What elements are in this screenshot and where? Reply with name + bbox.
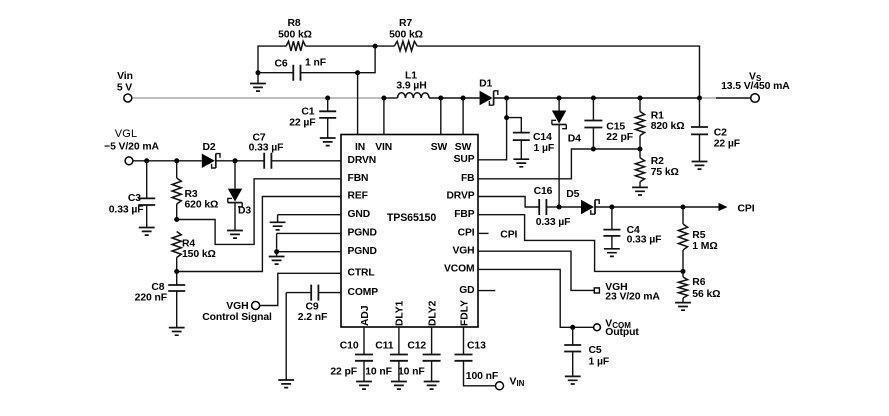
wire C9 to ground: [285, 293, 287, 380]
svg-text:R4: R4: [182, 238, 195, 249]
resistor R2 75k: [635, 149, 678, 187]
wire D2 to C7: [216, 158, 264, 163]
terminal VGH 23V/20mA: [594, 282, 660, 302]
capacitor C15 22pF: [584, 96, 633, 150]
svg-text:620 kΩ: 620 kΩ: [185, 199, 219, 210]
svg-text:R8: R8: [287, 18, 300, 29]
svg-text:GND: GND: [348, 209, 371, 220]
resistor R8 500k: [278, 18, 312, 51]
wire L1 to D1: [429, 97, 480, 99]
pin VIN riser: [381, 96, 386, 135]
capacitor C13 100nF: [455, 327, 499, 386]
ground D3: [227, 231, 243, 239]
ground C5: [565, 376, 581, 384]
wire 5V rail to L1: [384, 97, 398, 99]
svg-text:10 nF: 10 nF: [365, 367, 392, 378]
ground R6: [675, 303, 691, 311]
svg-text:VIN: VIN: [510, 376, 525, 388]
svg-text:C1: C1: [301, 107, 314, 118]
diode D4: [552, 96, 581, 208]
diode D2: [202, 142, 220, 168]
svg-text:CPI: CPI: [500, 229, 517, 240]
ground C8: [169, 328, 185, 336]
svg-text:PGND: PGND: [348, 246, 377, 257]
svg-text:22 pF: 22 pF: [606, 132, 633, 143]
svg-text:R6: R6: [692, 277, 705, 288]
wire FB pin to divider: [478, 147, 643, 179]
capacitor C16 0.33uF: [534, 186, 571, 228]
svg-text:1 nF: 1 nF: [305, 58, 326, 69]
diode D1: [479, 79, 498, 106]
terminal Vin: [117, 71, 133, 102]
svg-text:SW: SW: [431, 142, 448, 153]
svg-text:C11: C11: [375, 340, 394, 351]
wire D5 to CPI arrow: [595, 203, 755, 215]
svg-text:TPS65150: TPS65150: [387, 212, 436, 224]
terminal Vs 13.5V/450mA: [721, 71, 790, 102]
capacitor C10 22 pF: [330, 327, 373, 382]
svg-text:3.9 µH: 3.9 µH: [396, 81, 426, 92]
svg-text:C9: C9: [305, 301, 318, 312]
svg-text:D1: D1: [479, 79, 492, 90]
svg-text:C8: C8: [151, 282, 164, 293]
diode D3: [228, 161, 252, 231]
wire Vs output (gray segment): [700, 97, 751, 99]
svg-text:VGL: VGL: [115, 128, 138, 140]
wire IN pin riser: [357, 73, 359, 135]
svg-text:220 nF: 220 nF: [135, 293, 167, 304]
svg-text:22 µF: 22 µF: [714, 138, 740, 149]
svg-text:Output: Output: [605, 327, 639, 338]
wire VCOM pin to output: [478, 269, 594, 329]
svg-text:DLY2: DLY2: [427, 300, 438, 326]
svg-text:C3: C3: [128, 193, 141, 204]
svg-text:CPI: CPI: [458, 228, 475, 239]
svg-text:VGH: VGH: [226, 301, 248, 312]
capacitor C11 10 nF: [365, 327, 408, 382]
svg-text:REF: REF: [348, 191, 368, 202]
wire R8 to R7 junction: [306, 44, 395, 49]
svg-text:GD: GD: [459, 285, 474, 296]
svg-text:FB: FB: [461, 173, 475, 184]
svg-text:C5: C5: [589, 345, 602, 356]
svg-text:VIN: VIN: [375, 142, 392, 153]
svg-text:ADJ: ADJ: [360, 305, 371, 326]
svg-text:22 pF: 22 pF: [330, 367, 357, 378]
ground C12: [424, 382, 440, 390]
resistor R5 1M: [678, 207, 717, 271]
wire DRVP pin to C16: [478, 197, 539, 208]
svg-text:10 nF: 10 nF: [398, 367, 425, 378]
svg-text:C6: C6: [274, 58, 287, 69]
op-amp U1 TPS65150 IC body: [341, 135, 478, 328]
svg-text:DLY1: DLY1: [395, 300, 406, 326]
svg-text:C16: C16: [534, 186, 553, 197]
wire Vin 5V rail (gray segment): [132, 97, 384, 99]
ground PGND: [269, 257, 285, 265]
svg-text:SUP: SUP: [454, 154, 475, 165]
svg-text:IN: IN: [355, 142, 365, 153]
svg-text:C10: C10: [340, 340, 359, 351]
capacitor C7 0.33uF: [249, 132, 284, 168]
capacitor C5 1uF: [564, 327, 609, 376]
ground C1: [320, 138, 336, 146]
wire PGND pins: [274, 233, 341, 256]
svg-text:0.33 µF: 0.33 µF: [536, 217, 571, 228]
wire GND pin: [278, 215, 341, 223]
svg-text:R1: R1: [651, 111, 664, 122]
svg-text:820 kΩ: 820 kΩ: [651, 121, 685, 132]
resistor R1 820k: [635, 96, 684, 150]
wire CTRL to VGH control terminal: [260, 273, 341, 305]
svg-text:Control Signal: Control Signal: [202, 312, 272, 323]
ground R2: [632, 187, 648, 195]
svg-text:0.33 µF: 0.33 µF: [249, 143, 284, 154]
diode D5: [559, 189, 599, 214]
svg-text:VCOM: VCOM: [444, 264, 475, 275]
pin CPI stub: [478, 229, 518, 240]
svg-text:VGH: VGH: [452, 245, 474, 256]
svg-text:1 µF: 1 µF: [589, 356, 610, 367]
svg-text:13.5 V/450 mA: 13.5 V/450 mA: [721, 81, 790, 92]
terminal VGL -5V/20mA: [104, 128, 159, 165]
svg-text:D2: D2: [202, 142, 215, 153]
capacitor C1 22uF: [289, 96, 336, 139]
ground C3: [139, 228, 155, 236]
svg-text:2.2 nF: 2.2 nF: [298, 312, 327, 323]
svg-text:D3: D3: [238, 206, 251, 217]
svg-text:5 V: 5 V: [117, 83, 132, 94]
svg-text:FBP: FBP: [454, 209, 475, 220]
svg-text:R5: R5: [692, 230, 705, 241]
svg-text:CTRL: CTRL: [348, 268, 375, 279]
svg-text:DRVP: DRVP: [446, 191, 474, 202]
node R5/R6 junction: [681, 269, 686, 274]
svg-text:DRVN: DRVN: [348, 155, 377, 166]
ground C2: [692, 162, 708, 170]
svg-text:0.33 µF: 0.33 µF: [627, 235, 662, 246]
ground C4: [604, 249, 620, 257]
capacitor C14 1uF: [507, 118, 555, 160]
svg-text:C15: C15: [606, 121, 625, 132]
capacitor C3 0.33uF: [109, 161, 155, 228]
wire R7 to Vs node: [417, 46, 702, 100]
wire C7 to DRVN pin: [271, 160, 341, 162]
svg-text:75 kΩ: 75 kΩ: [651, 167, 679, 178]
wire VGL to D2: [133, 158, 202, 163]
capacitor C4 0.33uF: [603, 207, 661, 249]
terminal VCOM Output: [594, 318, 640, 338]
ground GND pin: [270, 222, 286, 230]
wire VGH pin to terminal: [478, 251, 594, 290]
svg-text:C12: C12: [407, 340, 426, 351]
resistor R4 150k: [172, 232, 216, 272]
svg-text:R3: R3: [185, 189, 198, 200]
ground C14: [513, 159, 529, 167]
wire FBP pin to R5/R6 junction: [478, 215, 683, 272]
capacitor C9 2.2nF: [286, 285, 341, 324]
svg-text:D5: D5: [566, 189, 579, 200]
node R3/R4 junction to FBN: [174, 179, 341, 245]
ground C9: [278, 380, 294, 388]
svg-text:500 kΩ: 500 kΩ: [389, 30, 423, 41]
svg-text:150 kΩ: 150 kΩ: [182, 249, 216, 260]
wire C6 to R7 junction riser: [355, 46, 375, 75]
svg-text:Vin: Vin: [117, 71, 133, 82]
svg-text:FBN: FBN: [348, 173, 369, 184]
svg-text:FDLY: FDLY: [459, 300, 470, 326]
ground C11: [391, 382, 407, 390]
svg-text:C13: C13: [467, 340, 486, 351]
svg-text:C14: C14: [533, 132, 552, 143]
svg-text:SW: SW: [455, 142, 472, 153]
svg-text:C2: C2: [714, 127, 727, 138]
svg-text:PGND: PGND: [348, 228, 377, 239]
svg-text:R7: R7: [399, 18, 412, 29]
svg-text:−5 V/20 mA: −5 V/20 mA: [104, 141, 159, 152]
ground C6: [250, 73, 266, 91]
resistor R6 56k: [678, 271, 720, 302]
pin SW risers: [438, 96, 465, 135]
capacitor C2 22uF: [691, 98, 740, 162]
svg-text:1 MΩ: 1 MΩ: [692, 241, 717, 252]
wire SUP pin to rail: [478, 96, 509, 160]
svg-text:CPI: CPI: [738, 204, 755, 215]
svg-text:22 µF: 22 µF: [289, 118, 315, 129]
svg-text:COMP: COMP: [348, 287, 379, 298]
inductor L1: [396, 71, 429, 98]
wire R8 left leg: [258, 46, 286, 73]
svg-text:D4: D4: [568, 133, 581, 144]
pin GD stub: [478, 290, 495, 292]
capacitor C12 10 nF: [398, 327, 441, 382]
svg-text:R2: R2: [651, 156, 664, 167]
resistor R3 620k: [172, 161, 218, 220]
resistor R7 500k: [389, 18, 423, 51]
svg-text:23 V/20 mA: 23 V/20 mA: [605, 292, 660, 303]
svg-text:1 µF: 1 µF: [534, 143, 555, 154]
terminal VGH Control Signal: [202, 301, 272, 323]
ground C10: [356, 382, 372, 390]
svg-text:0.33 µF: 0.33 µF: [109, 204, 144, 215]
svg-text:100 nF: 100 nF: [466, 371, 498, 382]
capacitor C6 1nF: [256, 58, 358, 81]
node R4/C8 junction to REF: [174, 197, 341, 275]
capacitor C8 220nF: [135, 272, 186, 328]
svg-text:500 kΩ: 500 kΩ: [278, 30, 312, 41]
svg-text:56 kΩ: 56 kΩ: [692, 289, 720, 300]
wire D1 to Vs node: [494, 97, 700, 99]
terminal VIN bottom: [496, 376, 525, 389]
